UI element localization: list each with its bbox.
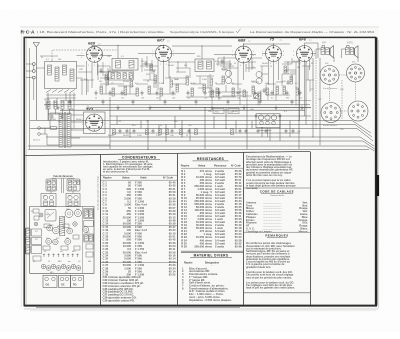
terminal pickup (32, 76, 35, 79)
top coil can cell 1 (46, 179, 57, 191)
tube V4 (266, 46, 282, 62)
tube V1 (87, 46, 103, 62)
wire left edge vertical (30, 48, 34, 149)
wires tube V2 leads (138, 54, 195, 91)
header: check mark (236, 29, 241, 33)
svg-text:| 18, Boulevard Malesherbes, P: | 18, Boulevard Malesherbes, Paris, 17e … (37, 30, 165, 34)
IF transformer T2 (195, 59, 214, 72)
wires tube V1 leads (77, 56, 113, 96)
AF coupling parts (211, 90, 213, 97)
power transformer secondary (67, 113, 71, 147)
mains plug (38, 127, 41, 130)
transformer secondary taps (71, 115, 110, 145)
chassis main body outline (30, 207, 94, 274)
trimmer circle cluster row (41, 264, 81, 270)
links down (51, 179, 73, 194)
tube V5 (297, 46, 313, 62)
page edge shadow left (20, 29, 22, 307)
diode coil can (225, 70, 231, 76)
ground line (44, 104, 310, 106)
border frame of sheet (24, 37, 375, 305)
detector network wires (208, 85, 266, 108)
wires tube V5 leads (300, 54, 317, 121)
tone cap (287, 80, 290, 85)
second row box 2 (66, 194, 80, 207)
tuning gang square (45, 210, 56, 222)
appendix cells (32, 229, 42, 236)
terminal terre (32, 70, 35, 73)
capacitors on buses (119, 129, 295, 134)
wire top rail V3-V4-V5 (244, 44, 291, 46)
speaker HP2 (output transformer + cone) (347, 46, 359, 58)
dashed link lines sockets (330, 75, 356, 111)
top coil can cell 2 (67, 179, 80, 191)
junction dots clutter (45, 43, 299, 121)
extra pocket fill wires (98, 56, 256, 84)
resistor columns mid band (100, 75, 298, 99)
dashed link verticals socket group (316, 60, 342, 129)
caps to ground row (69, 91, 302, 105)
chassis labels (31, 182, 91, 274)
socket S4 (rear view) (348, 101, 368, 121)
page edge shadow top (20, 26, 379, 28)
condensateurs electrolytic block rows (103, 275, 144, 302)
bottom terminal cells row (43, 275, 57, 287)
pin number marks around tubes (81, 51, 315, 135)
table column separators (101, 152, 311, 305)
AVC line (60, 100, 311, 102)
padder caps left (51, 114, 54, 119)
terminal antenne (32, 63, 35, 66)
speaker HP1 (output transformer + cone) (322, 46, 334, 58)
det coil can 2 (256, 72, 262, 78)
component reference labels (41, 56, 343, 137)
wave switch contacts (46, 90, 75, 93)
tuning gang dashed coupling (52, 50, 118, 62)
wire grid caps V2 V3 (172, 46, 232, 59)
tube V6 (86, 114, 103, 131)
tube V2 (155, 45, 171, 61)
power transformer TR1 core (64, 112, 65, 148)
IF can strip center (59, 217, 64, 236)
terminal strip labels (213, 109, 224, 114)
socket S1 (rear view) (320, 66, 339, 85)
schematic group (26, 37, 375, 152)
input coil assembly L1 (45, 62, 77, 89)
wires tube V3 leads (214, 55, 256, 91)
condensateurs rows (103, 180, 177, 276)
svg-text:R·C·A: R·C·A (21, 29, 36, 35)
resistances rows (181, 169, 242, 249)
oscillator trimmers under box (47, 101, 50, 109)
speaker wires (316, 49, 358, 62)
IF transformer T1 (112, 59, 138, 71)
bus vertical connectors (110, 58, 320, 149)
antenna (33, 43, 39, 121)
power transformer primary (59, 113, 63, 147)
wire V5 to output (305, 43, 319, 58)
pocket small parts (100, 68, 103, 73)
left appendix power entry (25, 228, 29, 254)
bus wires bottom band (28, 108, 375, 152)
wires tube V4 leads (262, 54, 279, 96)
resistors on buses (113, 129, 233, 135)
wire grid caps V1 V2 (92, 45, 164, 58)
mesh wires mid band (36, 66, 296, 106)
socket S3 (rear view) (321, 103, 341, 123)
rectifier tube V6 socket square (84, 112, 106, 134)
dial lamps assembly (256, 114, 280, 128)
right column cells (84, 209, 94, 219)
additional interconnect wires (clutter) (40, 56, 314, 110)
terminal lug row (43, 254, 79, 258)
T1 trimmers (111, 73, 114, 79)
fuse (51, 127, 57, 130)
page edge shadow bottom (24, 308, 378, 310)
page edge shadow right (378, 40, 380, 308)
B+ line (60, 109, 305, 111)
svg-text:La Documentation du Depanneur-: La Documentation du Depanneur-Radio — Ch… (250, 30, 375, 34)
divider line above tables (25, 151, 310, 155)
volume potentiometer (253, 93, 258, 98)
labels under cap row (95, 97, 302, 99)
wires input section (48, 93, 74, 129)
second row box 1 (41, 194, 56, 207)
right column: alignment paragraph (246, 155, 296, 190)
socket circles main body (65, 210, 73, 218)
junction dots (109, 59, 313, 149)
socket S2 (rear view) (347, 64, 365, 82)
heater line (90, 107, 311, 109)
V4 grid network (260, 58, 296, 88)
svg-text:Superheterodyne CHASSIS, 6 lam: Superheterodyne CHASSIS, 6 lampes (170, 30, 235, 34)
materiel divers rows (182, 266, 232, 301)
ground symbols row (56, 106, 303, 110)
T1 trimmer box (109, 71, 134, 80)
tube V3 (235, 46, 252, 63)
misc small rects body (33, 209, 39, 213)
